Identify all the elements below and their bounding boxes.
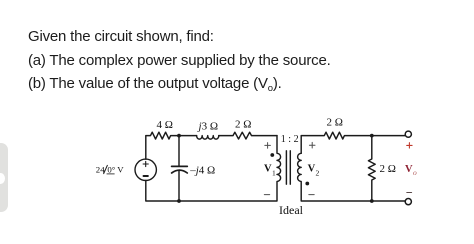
svg-text:1 : 2: 1 : 2 bbox=[281, 134, 299, 145]
svg-text:V: V bbox=[117, 165, 124, 175]
svg-text:0°: 0° bbox=[107, 165, 115, 175]
svg-text:V: V bbox=[264, 164, 272, 175]
svg-text:2 Ω: 2 Ω bbox=[235, 119, 251, 131]
svg-text:V: V bbox=[308, 164, 316, 175]
svg-text:V: V bbox=[405, 164, 413, 175]
svg-text:–j4 Ω: –j4 Ω bbox=[189, 164, 215, 176]
svg-text:4 Ω: 4 Ω bbox=[157, 119, 173, 131]
svg-text:2: 2 bbox=[316, 168, 320, 177]
svg-text:Ideal: Ideal bbox=[279, 203, 304, 217]
svg-text:2 Ω: 2 Ω bbox=[327, 117, 343, 129]
svg-text:2 Ω: 2 Ω bbox=[380, 163, 396, 175]
svg-text:1: 1 bbox=[272, 168, 276, 177]
svg-text:o: o bbox=[413, 168, 417, 177]
svg-text:j3 Ω: j3 Ω bbox=[197, 121, 219, 133]
